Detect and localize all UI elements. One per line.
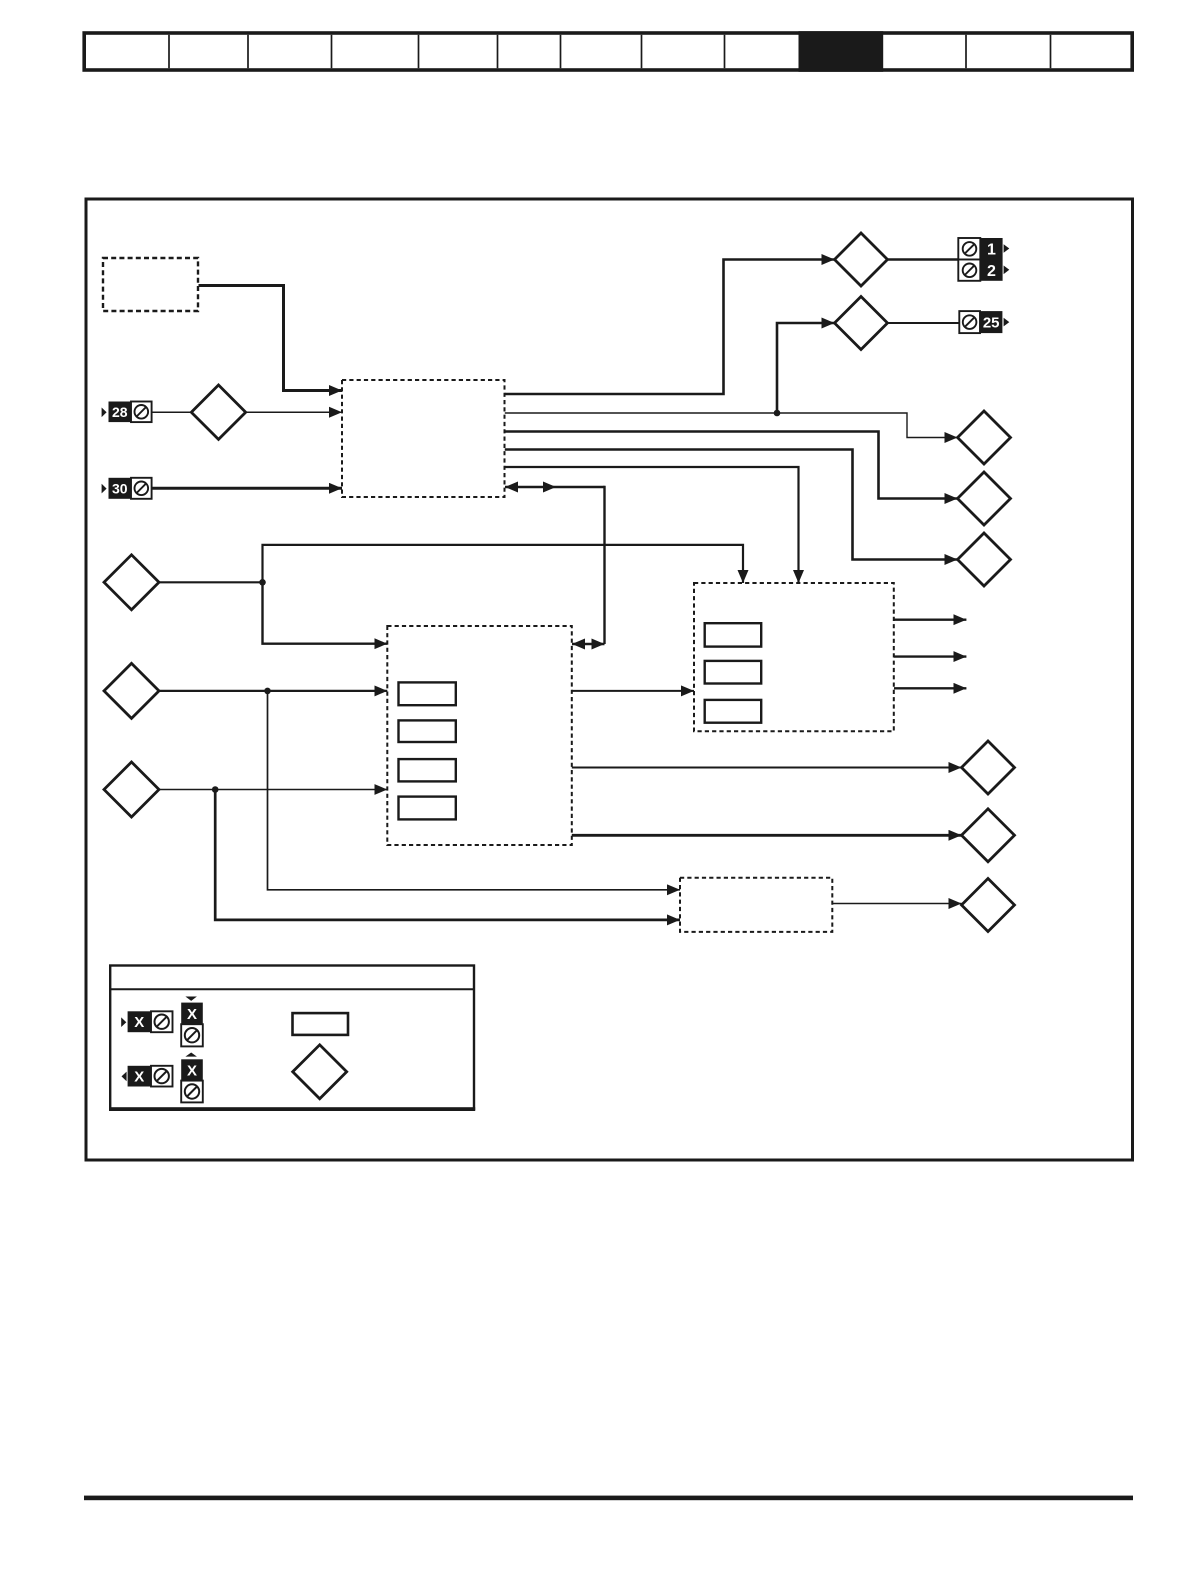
legend input terminal symbol	[121, 1011, 172, 1032]
parameter rect P1	[399, 682, 456, 705]
wire logic to diamond D6	[572, 767, 962, 769]
wire sequencer out1 to diamond D1	[505, 260, 835, 395]
wire junction up to diamond D2	[777, 323, 835, 413]
wire current box to diamond D8	[832, 903, 961, 905]
parameter rect P2	[399, 720, 456, 742]
svg-text:28: 28	[112, 404, 128, 420]
diamond DA	[104, 555, 159, 610]
svg-text:X: X	[187, 1006, 197, 1023]
wire DC to logic box	[159, 789, 387, 791]
diamond D1	[835, 233, 888, 286]
diamond DB	[104, 663, 159, 718]
junction DB	[264, 688, 271, 695]
legend RO diamond	[293, 1045, 347, 1099]
diamond D4	[958, 472, 1011, 525]
junction on out2	[774, 410, 781, 417]
wire DA to junction	[159, 581, 263, 583]
wire B1 to sequencer	[199, 286, 343, 391]
wire sequencer out2 to diamond D3	[505, 413, 958, 438]
wire 30 to sequencer	[152, 487, 342, 490]
wire D1 to terminals 1,2	[888, 258, 959, 260]
junction DA	[259, 579, 266, 586]
wire junction up-right to motor-control box	[263, 545, 744, 583]
legend input terminal vertical pair	[181, 997, 203, 1047]
legend frame	[110, 966, 474, 1110]
parameter rect P6	[705, 661, 762, 684]
legend output terminal vertical pair	[181, 1053, 203, 1103]
svg-text:25: 25	[983, 315, 1000, 332]
parameter rect P5	[705, 623, 762, 646]
dashed box B1 (top-left option module)	[103, 258, 198, 311]
diamond DIN1 (input destination)	[191, 385, 245, 439]
wire sequencer out4 to diamond D5	[505, 450, 958, 560]
diamond D2	[835, 297, 888, 350]
legend bottom heavy edge	[109, 1107, 475, 1111]
diamond D3	[958, 411, 1011, 464]
wire DB junction to current box	[268, 691, 681, 890]
parameter rect P4	[399, 797, 456, 820]
header table frame	[84, 33, 1132, 70]
terminal block 1 and 2	[958, 238, 1009, 281]
wire sequencer out5 to motor-control box	[505, 467, 799, 583]
wire motor-control output 1	[894, 619, 966, 621]
wire 28 to diamond	[152, 411, 192, 413]
legend RW parameter rect	[293, 1013, 349, 1035]
terminal 25	[959, 311, 1009, 333]
parameter rect P3	[399, 759, 456, 781]
terminal 28	[102, 402, 152, 423]
wire junction down-right to logic box	[263, 581, 388, 643]
bidirectional wire sequencer-logic	[505, 486, 605, 488]
legend title separator	[110, 988, 474, 990]
wire DC junction to current box	[215, 790, 680, 920]
diamond DC	[104, 762, 159, 817]
junction DC	[212, 786, 219, 793]
diamond D6	[962, 741, 1015, 794]
dashed box B3 (logic)	[387, 626, 572, 845]
wire diamond to sequencer	[246, 411, 342, 413]
wire sequencer out3 to diamond D4	[505, 432, 958, 499]
dashed box B5 (current limits)	[680, 878, 832, 932]
wire DB to logic box	[159, 690, 387, 692]
diamond D8	[962, 879, 1015, 932]
svg-text:1: 1	[987, 242, 996, 259]
wire D2 to terminal 25	[888, 322, 960, 324]
dashed box B2 (sequencer)	[342, 380, 505, 497]
bottom rule	[84, 1496, 1133, 1501]
svg-text:30: 30	[112, 481, 128, 497]
header black cell	[799, 31, 884, 72]
wire logic to motor-control box	[572, 690, 694, 692]
svg-text:X: X	[134, 1069, 144, 1086]
svg-text:X: X	[187, 1063, 197, 1080]
diamond D7	[962, 809, 1015, 862]
wire motor-control output 3	[894, 687, 966, 689]
wire logic to diamond D7	[572, 834, 962, 837]
dashed box B4 (motor control)	[694, 583, 894, 731]
parameter rect P7	[705, 700, 762, 723]
legend output terminal symbol	[122, 1066, 173, 1087]
wire motor-control output 2	[894, 655, 966, 657]
svg-text:2: 2	[987, 263, 996, 280]
diamond D5	[958, 533, 1011, 586]
svg-text:X: X	[134, 1014, 144, 1031]
terminal 30	[102, 478, 152, 499]
header cell separators	[169, 35, 1051, 68]
diagram frame	[86, 199, 1133, 1160]
